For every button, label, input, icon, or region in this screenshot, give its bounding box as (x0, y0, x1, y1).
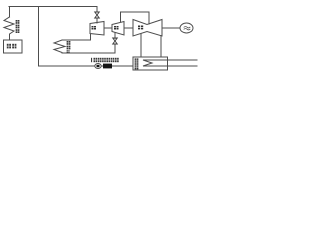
wire shaft LP-generator (162, 27, 180, 29)
wire LP exhaust left (140, 34, 142, 57)
wire shaft HP-IP (104, 27, 112, 29)
wire shaft IP-LP (124, 27, 133, 29)
wire reheat return line (62, 44, 115, 53)
IP turbine (112, 22, 124, 36)
wire valve to IP turbine (114, 33, 116, 39)
generator G1 (180, 23, 193, 33)
wire crossover pipe IP to LP (121, 12, 150, 24)
HP turbine (90, 22, 104, 36)
reheater text 再热器 (vertical) (67, 41, 71, 53)
feedwater heater (1-stage regenerative heater) (103, 64, 112, 69)
wire downcomer (38, 7, 40, 67)
condenser box (133, 57, 168, 70)
reheater coil (54, 40, 65, 53)
LP turbine double flow (133, 20, 162, 37)
stop valve (95, 12, 100, 18)
condenser text 凝汽器 (vertical) (135, 58, 139, 69)
wire main steam top line (9, 6, 97, 8)
feed pump P1 (95, 64, 101, 69)
IP turbine label (114, 26, 119, 30)
LP turbine label (138, 26, 143, 30)
heater label text 1级回热加热器 (91, 58, 119, 62)
wire main steam vertical (96, 7, 98, 13)
wire boiler riser left (9, 7, 11, 18)
generator label (184, 27, 190, 30)
wire LP exhaust right (160, 36, 162, 57)
wire valve to HP turbine (96, 18, 98, 24)
feed pump rotor (97, 65, 100, 67)
wire feedwater bottom line (39, 65, 134, 67)
wire HP exhaust to reheater (62, 34, 91, 40)
superheater coil (4, 17, 14, 40)
superheater text 过热器 (vertical) (16, 20, 20, 33)
HP turbine label (92, 26, 97, 30)
boiler text 锅炉 (7, 44, 17, 49)
condenser cooling water coil (143, 60, 197, 66)
intercept valve (113, 38, 118, 44)
boiler label box (4, 40, 23, 53)
